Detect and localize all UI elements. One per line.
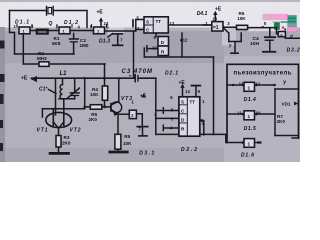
svg-text:+E: +E [179, 80, 186, 86]
svg-text:1M0: 1M0 [80, 43, 89, 48]
svg-text:13: 13 [239, 81, 244, 86]
svg-text:D1.5: D1.5 [244, 126, 256, 132]
svg-text:D3.1: D3.1 [139, 150, 154, 156]
svg-text:10K: 10K [90, 92, 99, 97]
svg-text:2K0: 2K0 [277, 119, 286, 124]
svg-text:2K0: 2K0 [89, 117, 98, 122]
svg-text:14: 14 [185, 89, 190, 94]
svg-text:VT2: VT2 [70, 128, 81, 134]
svg-text:2K0: 2K0 [62, 141, 71, 146]
svg-text:+E: +E [21, 75, 28, 81]
svg-text:1: 1 [248, 85, 251, 90]
svg-text:1: 1 [248, 142, 251, 147]
svg-text:D1.3: D1.3 [99, 39, 110, 45]
svg-text:R5: R5 [124, 134, 130, 139]
svg-text:11: 11 [135, 26, 140, 31]
svg-text:10K: 10K [237, 16, 246, 21]
svg-text:R3: R3 [64, 135, 70, 140]
svg-text:Д: Д [289, 34, 294, 39]
svg-text:14: 14 [212, 17, 217, 22]
svg-text:C1*: C1* [39, 86, 48, 92]
svg-text:D4.1: D4.1 [197, 11, 208, 17]
svg-text:12: 12 [183, 38, 188, 43]
svg-text:R7: R7 [277, 114, 283, 119]
svg-text:10H: 10H [250, 41, 259, 47]
svg-text:VD1: VD1 [282, 101, 291, 106]
svg-text:пьезоизлучатель: пьезоизлучатель [234, 71, 292, 77]
svg-text:TT: TT [156, 19, 162, 24]
svg-text:D2.2: D2.2 [181, 147, 197, 153]
svg-text:=1: =1 [213, 25, 219, 31]
svg-text:Q: Q [49, 21, 53, 27]
svg-text:1: 1 [248, 114, 251, 119]
svg-text:L1: L1 [60, 71, 68, 77]
svg-text:TT: TT [190, 99, 196, 104]
svg-text:12: 12 [255, 81, 260, 86]
svg-text:13: 13 [170, 21, 175, 26]
svg-text:C4: C4 [253, 36, 260, 42]
svg-text:D1.2: D1.2 [64, 20, 78, 26]
svg-text:14: 14 [104, 21, 109, 26]
svg-text:5K8: 5K8 [52, 41, 61, 46]
svg-text:10: 10 [256, 110, 261, 115]
svg-text:+E: +E [140, 94, 147, 100]
svg-text:VT1: VT1 [37, 128, 48, 134]
svg-text:C3 470M: C3 470M [122, 69, 154, 75]
svg-text:S: S [181, 99, 184, 104]
svg-text:S: S [146, 19, 149, 24]
svg-text:D1.6: D1.6 [241, 152, 254, 158]
svg-text:10: 10 [152, 46, 157, 51]
svg-text:+E: +E [97, 10, 104, 16]
svg-text:+: + [129, 74, 132, 79]
svg-text:D2.1: D2.1 [165, 71, 178, 77]
svg-text:+E: +E [215, 6, 222, 12]
svg-text:D1.1: D1.1 [15, 20, 29, 26]
svg-text:D3.2: D3.2 [287, 47, 300, 53]
svg-text:11: 11 [237, 110, 242, 115]
svg-text:D1.4: D1.4 [244, 97, 256, 103]
svg-text:10K: 10K [123, 141, 132, 146]
svg-text:MH3: MH3 [37, 56, 47, 61]
svg-text:y: y [229, 43, 232, 48]
